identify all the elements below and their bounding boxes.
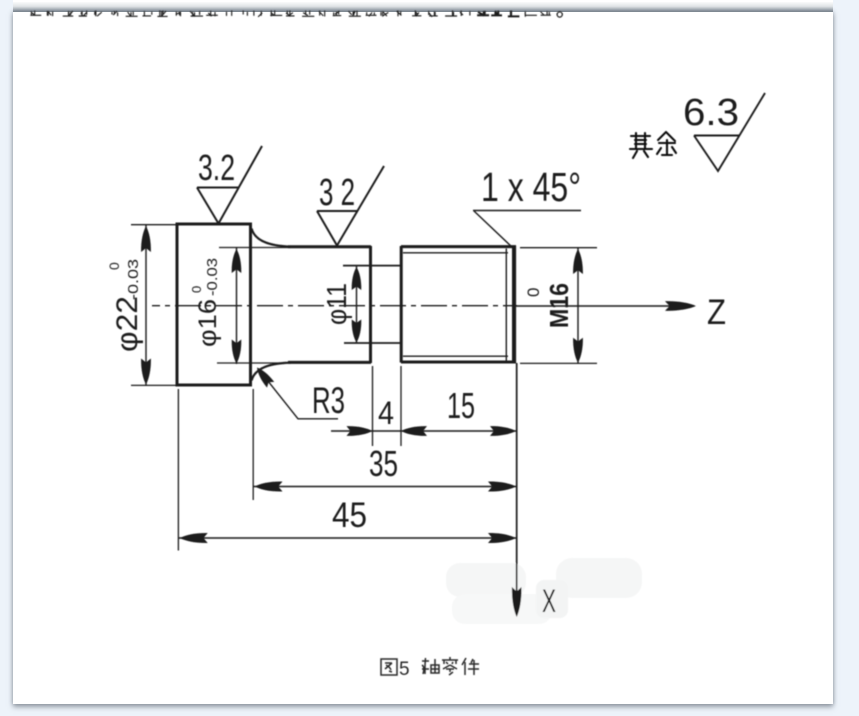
fillet R3 top (phi22 to phi16 shoulder) bbox=[252, 229, 291, 247]
svg-text:-0.03: -0.03 bbox=[204, 258, 221, 296]
R3 leader arrowhead bbox=[257, 368, 274, 388]
svg-text:5: 5 bbox=[399, 659, 410, 680]
svg-text:4: 4 bbox=[378, 395, 394, 431]
phi16 journal bottom edge bbox=[288, 361, 371, 364]
svg-text:0: 0 bbox=[189, 286, 204, 293]
svg-text:15: 15 bbox=[447, 385, 475, 426]
svg-text:M16: M16 bbox=[544, 283, 574, 328]
45 extension line bbox=[177, 389, 179, 551]
centerline (dash-dot axis) bbox=[152, 305, 517, 307]
svg-text:45: 45 bbox=[332, 496, 367, 535]
svg-text:X: X bbox=[542, 583, 556, 619]
svg-text:3.2: 3.2 bbox=[198, 147, 235, 188]
svg-text:0: 0 bbox=[106, 262, 122, 270]
R3 leader line bbox=[258, 369, 338, 419]
M16 thread label bbox=[524, 283, 574, 328]
phi16 journal top edge bbox=[288, 245, 371, 248]
svg-text:R3: R3 bbox=[312, 380, 345, 421]
phi22 dimension line bbox=[145, 225, 147, 386]
Z axis arrowhead bbox=[665, 301, 696, 311]
phi16 dimension extension lines bbox=[217, 248, 290, 364]
Z axis line bbox=[514, 305, 694, 307]
page background bbox=[13, 0, 833, 7]
thread section M16 outline bbox=[401, 246, 516, 364]
phi16 dimension line bbox=[236, 248, 238, 364]
phi16 right end face bbox=[369, 246, 372, 363]
thread root line bottom bbox=[403, 355, 508, 357]
svg-text:-0.03: -0.03 bbox=[125, 259, 142, 300]
groove width extension lines bbox=[373, 366, 402, 446]
relief groove phi11 bottom line bbox=[344, 342, 401, 344]
svg-text:0: 0 bbox=[524, 288, 543, 297]
svg-text:φ16: φ16 bbox=[194, 299, 222, 347]
dimension line 35 bbox=[254, 486, 517, 488]
dimension line 4 and 15 bbox=[331, 430, 517, 432]
X axis arrowhead bbox=[512, 587, 522, 617]
svg-text:φ22: φ22 bbox=[111, 296, 144, 352]
roughness 6.3 (all other surfaces) bbox=[694, 93, 765, 171]
M16 dimension extension lines bbox=[520, 248, 597, 364]
svg-text:1 x 45°: 1 x 45° bbox=[481, 164, 581, 210]
fillet R3 bottom (phi22 to phi16 shoulder) bbox=[252, 363, 291, 381]
shaft body: phi22 flange (left cylinder) bbox=[177, 224, 251, 385]
phi22 dimension extension lines bbox=[131, 225, 178, 386]
roughness 3.2 on phi16 bbox=[317, 166, 384, 246]
35 extension line bbox=[252, 389, 254, 500]
clipped paragraph text line (top of page, cut off) bbox=[30, 11, 562, 17]
svg-text:35: 35 bbox=[369, 443, 398, 484]
phi22 tolerance label bbox=[106, 259, 144, 352]
chamfer leader bbox=[473, 211, 581, 249]
dimension line 45 bbox=[179, 537, 517, 539]
phi11 dimension line bbox=[356, 266, 358, 343]
svg-text:φ11: φ11 bbox=[321, 283, 352, 325]
thread root line top bbox=[403, 252, 508, 254]
roughness 3.2 on phi22 bbox=[197, 146, 262, 224]
scan artifact smudges bbox=[446, 558, 642, 624]
caption figure 5 shaft part bbox=[381, 659, 397, 675]
phi16 tolerance label bbox=[189, 258, 222, 347]
M16 dimension line bbox=[577, 248, 579, 363]
X axis line bbox=[516, 363, 518, 612]
svg-text:3 2: 3 2 bbox=[319, 172, 355, 214]
svg-text:6.3: 6.3 bbox=[683, 92, 739, 134]
chamfer line at thread end bbox=[505, 249, 507, 361]
svg-text:Z: Z bbox=[707, 293, 726, 332]
note QiYu (rest of surfaces) hand characters bbox=[630, 132, 676, 158]
relief groove phi11 top line bbox=[343, 265, 401, 267]
